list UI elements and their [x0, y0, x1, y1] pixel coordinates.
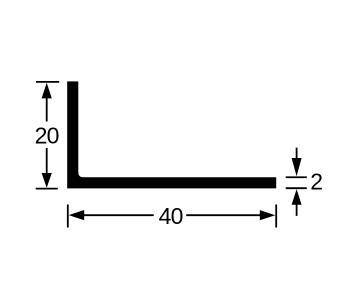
svg-text:40: 40	[159, 203, 183, 229]
svg-text:20: 20	[35, 123, 59, 149]
svg-text:2: 2	[310, 169, 322, 195]
